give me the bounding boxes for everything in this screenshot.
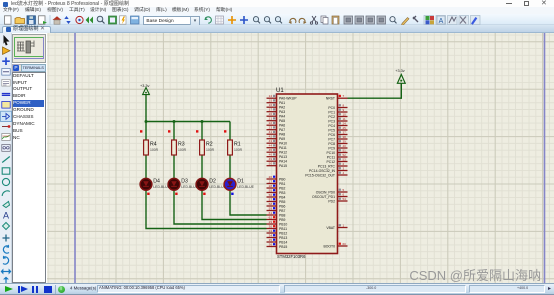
- svg-text:PA15: PA15: [279, 164, 287, 168]
- svg-text:22: 22: [269, 121, 273, 125]
- svg-text:PB6: PB6: [279, 204, 286, 208]
- svg-text:62: 62: [269, 216, 273, 220]
- svg-text:36: 36: [269, 243, 273, 247]
- svg-text:PA13: PA13: [279, 155, 287, 159]
- svg-text:R4: R4: [150, 141, 157, 147]
- svg-text:PB14: PB14: [279, 240, 287, 244]
- svg-text:15: 15: [269, 99, 273, 103]
- svg-text:60: 60: [343, 242, 347, 246]
- svg-text:PB5: PB5: [279, 200, 286, 204]
- svg-text:PA12: PA12: [279, 151, 287, 155]
- svg-text:PA5: PA5: [279, 119, 285, 123]
- svg-text:37: 37: [343, 131, 347, 135]
- svg-text:42: 42: [269, 135, 273, 139]
- svg-text:STM32F103R6: STM32F103R6: [277, 254, 306, 259]
- svg-text:R3: R3: [178, 141, 185, 147]
- svg-text:PA1: PA1: [279, 101, 285, 105]
- svg-text:PC7: PC7: [328, 137, 335, 141]
- svg-text:D1: D1: [237, 179, 244, 185]
- svg-text:PA2: PA2: [279, 106, 285, 110]
- svg-text:PA9: PA9: [279, 137, 285, 141]
- svg-text:PC12: PC12: [327, 160, 336, 164]
- svg-text:PC8: PC8: [328, 142, 335, 146]
- svg-text:PA10: PA10: [279, 142, 287, 146]
- svg-text:PA4: PA4: [279, 115, 285, 119]
- svg-text:51: 51: [343, 149, 347, 153]
- svg-text:10: 10: [343, 113, 347, 117]
- svg-text:PB0: PB0: [279, 177, 286, 181]
- svg-text:PA7: PA7: [279, 128, 285, 132]
- svg-text:PC0: PC0: [328, 106, 335, 110]
- svg-text:PA6: PA6: [279, 124, 285, 128]
- svg-text:PA3: PA3: [279, 110, 285, 114]
- svg-text:PC14-OSC32_IN: PC14-OSC32_IN: [309, 169, 336, 173]
- svg-text:PB1: PB1: [279, 182, 286, 186]
- svg-text:PC3: PC3: [328, 119, 335, 123]
- svg-text:PA0-WKUP: PA0-WKUP: [279, 97, 297, 101]
- svg-text:PB9: PB9: [279, 218, 286, 222]
- svg-text:PA11: PA11: [279, 146, 287, 150]
- svg-text:PB13: PB13: [279, 236, 287, 240]
- svg-text:PB7: PB7: [279, 209, 286, 213]
- svg-text:PC1: PC1: [328, 110, 335, 114]
- svg-text:57: 57: [269, 198, 273, 202]
- svg-text:39: 39: [343, 140, 347, 144]
- svg-text:PB11: PB11: [279, 227, 287, 231]
- svg-text:100R: 100R: [234, 148, 243, 152]
- svg-text:23: 23: [269, 126, 273, 130]
- svg-text:R2: R2: [206, 141, 213, 147]
- svg-text:PC11: PC11: [327, 155, 335, 159]
- svg-text:PB10: PB10: [279, 222, 287, 226]
- svg-text:PC9: PC9: [328, 146, 335, 150]
- svg-text:25: 25: [343, 126, 347, 130]
- svg-text:27: 27: [269, 180, 273, 184]
- svg-text:D2: D2: [209, 179, 216, 185]
- svg-text:56: 56: [269, 193, 273, 197]
- svg-text:33: 33: [269, 229, 273, 233]
- svg-text:53: 53: [343, 158, 347, 162]
- svg-text:PB3: PB3: [279, 191, 286, 195]
- svg-text:100R: 100R: [150, 148, 159, 152]
- svg-text:PC6: PC6: [328, 133, 335, 137]
- svg-text:44: 44: [269, 144, 273, 148]
- svg-text:49: 49: [269, 157, 273, 161]
- svg-text:55: 55: [269, 189, 273, 193]
- svg-text:43: 43: [269, 139, 273, 143]
- svg-text:34: 34: [269, 234, 273, 238]
- svg-text:30: 30: [269, 225, 273, 229]
- svg-text:U1: U1: [276, 88, 284, 94]
- svg-text:41: 41: [269, 130, 273, 134]
- svg-text:PC2: PC2: [328, 115, 335, 119]
- svg-text:VBAT: VBAT: [326, 226, 335, 230]
- svg-text:50: 50: [269, 162, 273, 166]
- svg-text:16: 16: [269, 103, 273, 107]
- svg-text:100R: 100R: [178, 148, 187, 152]
- svg-text:PC10: PC10: [327, 151, 336, 155]
- svg-text:PB8: PB8: [279, 213, 286, 217]
- svg-text:A: A: [439, 18, 444, 25]
- svg-text:R1: R1: [234, 141, 241, 147]
- svg-text:NRST: NRST: [326, 97, 335, 101]
- svg-text:61: 61: [269, 211, 273, 215]
- svg-text:35: 35: [269, 238, 273, 242]
- svg-text:OSCIN_PD0: OSCIN_PD0: [316, 190, 335, 194]
- svg-text:PC5: PC5: [328, 128, 335, 132]
- svg-text:A: A: [3, 211, 9, 221]
- svg-text:45: 45: [269, 148, 273, 152]
- svg-text:20: 20: [269, 112, 273, 116]
- svg-text:PA14: PA14: [279, 160, 287, 164]
- svg-text:52: 52: [343, 153, 347, 157]
- svg-text:54: 54: [343, 197, 347, 201]
- svg-text:PB12: PB12: [279, 231, 287, 235]
- svg-text:40: 40: [343, 144, 347, 148]
- svg-text:+3.3v: +3.3v: [140, 84, 149, 88]
- svg-text:PB15: PB15: [279, 245, 287, 249]
- svg-text:17: 17: [269, 108, 273, 112]
- svg-text:LED-BLUE: LED-BLUE: [237, 185, 254, 189]
- svg-text:PB2: PB2: [279, 186, 286, 190]
- svg-text:59: 59: [269, 207, 273, 211]
- svg-text:PC15-OSC32_OUT: PC15-OSC32_OUT: [305, 173, 335, 177]
- svg-text:11: 11: [343, 117, 346, 121]
- svg-text:OSCOUT_PD1: OSCOUT_PD1: [312, 195, 335, 199]
- svg-text:PC13_RTC: PC13_RTC: [318, 164, 336, 168]
- svg-text:PD2: PD2: [328, 199, 335, 203]
- svg-text:D4: D4: [153, 179, 160, 185]
- svg-text:58: 58: [269, 202, 273, 206]
- svg-text:46: 46: [269, 153, 273, 157]
- svg-text:24: 24: [343, 122, 347, 126]
- svg-text:26: 26: [269, 175, 273, 179]
- svg-text:PC4: PC4: [328, 124, 335, 128]
- svg-text:D3: D3: [181, 179, 188, 185]
- svg-text:CSDN @所爱隔山海呐: CSDN @所爱隔山海呐: [409, 268, 541, 283]
- svg-text:+3.3v: +3.3v: [395, 69, 404, 73]
- svg-text:28: 28: [269, 184, 273, 188]
- svg-text:PB4: PB4: [279, 195, 286, 199]
- svg-text:21: 21: [269, 117, 273, 121]
- svg-text:29: 29: [269, 220, 273, 224]
- svg-text:100R: 100R: [206, 148, 215, 152]
- svg-text:PA8: PA8: [279, 133, 285, 137]
- svg-text:38: 38: [343, 135, 347, 139]
- svg-text:BOOT0: BOOT0: [324, 244, 336, 248]
- svg-text:14: 14: [269, 94, 273, 98]
